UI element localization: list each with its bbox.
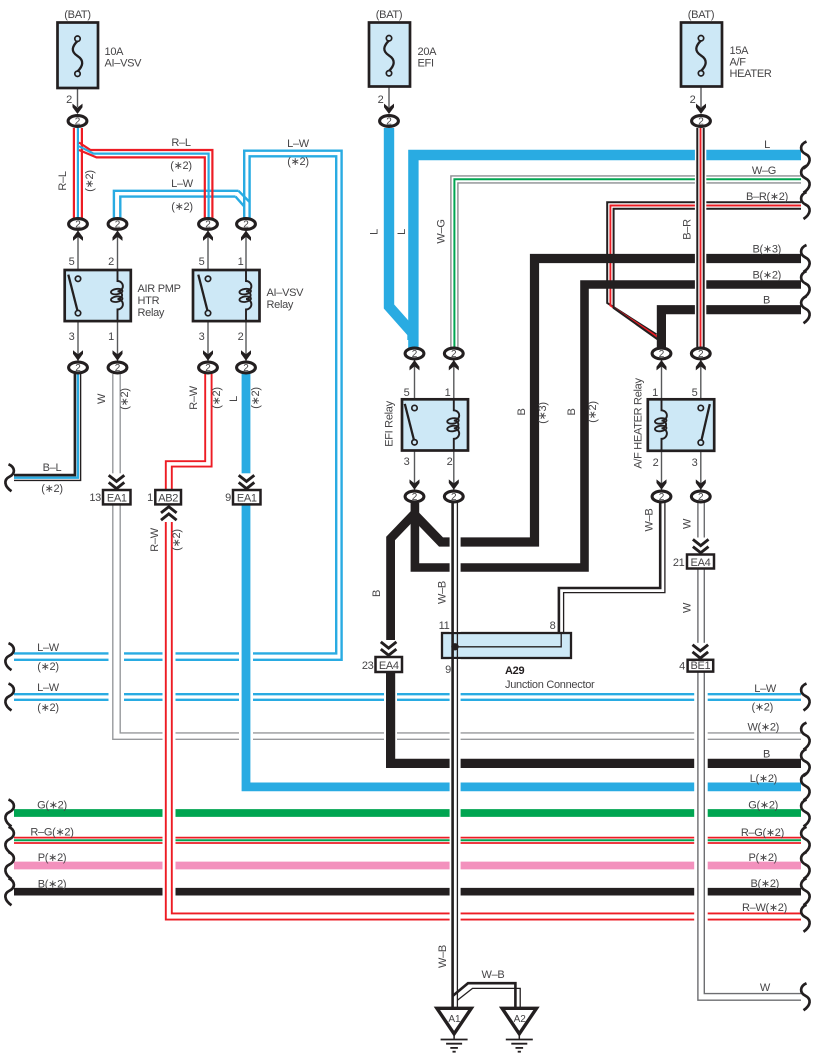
svg-text:W: W	[682, 602, 694, 613]
break right wire B(*2)	[801, 271, 809, 298]
arrow down into oval AIR PMP pin1	[113, 350, 123, 360]
svg-text:1: 1	[445, 387, 451, 399]
break left wire B-L	[5, 464, 13, 491]
arrow down into oval A/F relay pin3	[696, 479, 706, 489]
wire L-W (*2) second full-width horizontal	[14, 694, 801, 700]
wire L thick horizontal from EFI fuse area to right edge	[413, 155, 801, 348]
break right wire B-R(*2)	[801, 192, 809, 219]
arrow up into oval AI-VSV pin1	[241, 231, 251, 241]
arrow below fuse A/F HEATER	[696, 104, 706, 114]
wire R-W upper jog from AI-VSV relay pin3 to AB2	[166, 374, 212, 492]
svg-text:L–W: L–W	[287, 138, 310, 150]
svg-text:B: B	[516, 408, 528, 415]
svg-text:L: L	[228, 396, 240, 402]
svg-text:A29: A29	[505, 665, 524, 677]
svg-text:EA1: EA1	[237, 493, 257, 505]
svg-text:EA4: EA4	[379, 660, 399, 672]
wire B(*2) upper from right edge down-left into EFI relay pin3 stub	[415, 285, 801, 568]
svg-text:W–G: W–G	[752, 165, 776, 177]
svg-text:B(∗2): B(∗2)	[751, 878, 780, 890]
svg-text:EA1: EA1	[107, 493, 127, 505]
svg-text:20A: 20A	[418, 46, 438, 58]
svg-text:1: 1	[108, 331, 114, 343]
svg-text:2: 2	[108, 256, 114, 268]
node oval above AIR PMP pin5	[69, 219, 88, 231]
node oval below EFI pin2	[444, 491, 463, 503]
svg-text:8: 8	[550, 620, 556, 632]
svg-text:P(∗2): P(∗2)	[38, 852, 67, 864]
svg-text:G(∗2): G(∗2)	[748, 800, 778, 812]
node oval below AI-VSV pin3	[199, 362, 218, 374]
svg-text:HEATER: HEATER	[730, 68, 772, 80]
wire R-L branch right to AI-VSV relay pin5	[79, 143, 212, 219]
svg-text:15A: 15A	[730, 45, 750, 57]
svg-text:AB2: AB2	[158, 493, 178, 505]
svg-text:(BAT): (BAT)	[688, 9, 714, 21]
connector 4 BE1	[688, 660, 714, 672]
node oval above AI-VSV pin1	[237, 219, 256, 231]
svg-text:2: 2	[378, 94, 384, 106]
arrow up into oval A/F relay pin5	[696, 360, 706, 370]
wire W(*2) from AIR PMP relay pin1 down then right	[109, 374, 802, 739]
svg-text:3: 3	[199, 331, 205, 343]
arrow down into oval EFI pin2	[449, 479, 459, 489]
svg-text:3: 3	[69, 331, 75, 343]
break left wire G(*2)	[5, 800, 13, 827]
svg-text:(∗2): (∗2)	[170, 160, 191, 172]
svg-text:(∗2): (∗2)	[287, 156, 308, 168]
svg-text:W–G: W–G	[436, 219, 448, 243]
svg-text:B–L: B–L	[43, 462, 62, 474]
svg-text:10A: 10A	[105, 46, 125, 58]
break right wire B(*2) lower	[801, 878, 809, 905]
svg-text:(BAT): (BAT)	[376, 9, 402, 21]
node oval below A/F relay pin2	[652, 491, 671, 503]
break right wire B lower	[801, 749, 809, 776]
node oval above EFI pin1	[444, 348, 463, 360]
wire L-W (*2) upper-left net: AI-VSV relay pin1 up, right, down, to left edge	[14, 151, 342, 660]
svg-text:L(∗2): L(∗2)	[750, 773, 777, 785]
break right wire W(*2)	[801, 723, 809, 750]
svg-text:(∗2): (∗2)	[84, 170, 96, 191]
wire G(*2) full-width green	[14, 809, 801, 817]
svg-text:R–L: R–L	[171, 137, 190, 149]
svg-text:B(∗2): B(∗2)	[753, 270, 782, 282]
svg-text:4: 4	[679, 661, 685, 673]
break right wire W-G	[801, 166, 809, 193]
arrow up into oval EFI pin5	[410, 360, 420, 370]
svg-text:Junction Connector: Junction Connector	[505, 679, 595, 691]
arrow up into oval EFI pin1	[449, 360, 459, 370]
svg-text:EFI: EFI	[418, 58, 434, 70]
svg-text:BE1: BE1	[690, 660, 710, 672]
break right wire B(*3)	[801, 245, 809, 272]
svg-text:2: 2	[690, 94, 696, 106]
svg-text:L–W: L–W	[171, 178, 194, 190]
svg-text:L–W: L–W	[37, 682, 60, 694]
wire R-G(*2) full-width	[14, 838, 801, 843]
svg-text:(∗2): (∗2)	[752, 702, 773, 714]
svg-text:B: B	[763, 749, 770, 761]
svg-text:1: 1	[147, 492, 153, 504]
svg-text:(∗2): (∗2)	[171, 201, 192, 213]
svg-text:W: W	[96, 393, 108, 404]
break right wire R-G(*2)	[801, 827, 809, 854]
svg-text:B–R: B–R	[682, 219, 694, 240]
wire B(*2) full-width black bottom	[14, 888, 801, 896]
svg-text:5: 5	[199, 256, 205, 268]
node oval above A/F relay pin5	[691, 348, 710, 360]
svg-text:W: W	[760, 982, 771, 994]
svg-text:R–W: R–W	[188, 385, 200, 409]
break right wire P(*2)	[801, 852, 809, 879]
svg-text:W(∗2): W(∗2)	[747, 722, 779, 734]
svg-text:EFI Relay: EFI Relay	[384, 400, 396, 446]
break left wire L-W first	[5, 643, 13, 670]
arrow down into oval AI-VSV pin3	[203, 350, 213, 360]
wire P(*2) full-width pink	[14, 862, 801, 870]
relay A/F HEATER	[648, 360, 714, 490]
arrow up into oval A/F relay pin1	[657, 360, 667, 370]
svg-text:(∗3): (∗3)	[537, 402, 549, 423]
svg-text:A/F HEATER Relay: A/F HEATER Relay	[633, 378, 645, 469]
svg-text:R–G(∗2): R–G(∗2)	[741, 827, 784, 839]
arrow up into oval AI-VSV pin5	[203, 231, 213, 241]
wire W-G to EFI relay pin1	[451, 176, 801, 348]
svg-text:5: 5	[692, 387, 698, 399]
svg-text:B: B	[371, 590, 383, 597]
chevron into 9 EA1	[237, 473, 256, 490]
connector 13 EA1	[103, 490, 131, 504]
wire L(*2) from 9 EA1 down then right to edge	[239, 374, 801, 787]
svg-text:(∗2): (∗2)	[41, 483, 62, 495]
arrow up into oval AIR PMP pin2	[113, 231, 123, 241]
chevron up below 1 AB2	[159, 506, 178, 523]
arrow down into oval AIR PMP pin3	[73, 350, 83, 360]
svg-text:(∗2): (∗2)	[37, 661, 58, 673]
node oval above A/F relay pin1	[652, 348, 671, 360]
node oval below AIR PMP pin3	[69, 362, 88, 374]
svg-text:3: 3	[692, 457, 698, 469]
svg-text:23: 23	[362, 660, 374, 672]
chevron into 4 BE1	[691, 643, 710, 660]
svg-text:2: 2	[447, 456, 453, 468]
svg-text:Relay: Relay	[138, 307, 165, 319]
svg-text:W–B: W–B	[437, 945, 449, 968]
svg-text:B: B	[566, 408, 578, 415]
svg-text:R–W: R–W	[149, 527, 161, 551]
wire W-B from A/F relay pin2 left and down to A29 pin8	[559, 503, 665, 634]
connector 1 AB2	[155, 490, 181, 504]
arrow down into oval EFI pin3	[410, 479, 420, 489]
node oval above AIR PMP pin2	[108, 219, 127, 231]
chevron into 13 EA1	[107, 473, 126, 490]
svg-text:B(∗3): B(∗3)	[753, 244, 782, 256]
svg-text:(∗2): (∗2)	[171, 529, 183, 550]
relay AI-VSV	[193, 231, 260, 361]
svg-text:21: 21	[673, 557, 685, 569]
svg-text:B–R(∗2): B–R(∗2)	[746, 191, 788, 203]
junction connector A29 box	[442, 633, 571, 658]
fuse 20A EFI	[369, 23, 410, 108]
svg-text:W–B: W–B	[482, 969, 505, 981]
connector 21 EA4	[687, 555, 714, 569]
node oval above EFI pin5	[405, 348, 424, 360]
node oval below AI-VSV pin2	[237, 362, 256, 374]
node oval below EFI pin3	[405, 491, 424, 503]
svg-text:AI–VSV: AI–VSV	[105, 58, 143, 70]
wire B-R(*2) from right edge to A/F heater relay pin1	[607, 202, 801, 341]
svg-text:9: 9	[225, 492, 231, 504]
svg-text:(∗2): (∗2)	[37, 702, 58, 714]
wire B(*3) from right edge down to Y junction	[413, 259, 801, 543]
arrow down into oval AI-VSV pin2	[241, 350, 251, 360]
svg-text:9: 9	[445, 664, 451, 676]
ground A2	[502, 1008, 536, 1051]
break right wire W bottom	[801, 983, 809, 1010]
svg-text:(∗2): (∗2)	[250, 387, 262, 408]
arrow below fuse AI-VSV	[73, 104, 83, 114]
break right wire L(*2)	[801, 773, 809, 800]
svg-text:5: 5	[69, 256, 75, 268]
svg-text:2: 2	[238, 331, 244, 343]
svg-text:2: 2	[653, 457, 659, 469]
svg-text:11: 11	[439, 620, 450, 632]
node oval fuse AI-VSV pin2	[68, 116, 87, 128]
svg-text:1: 1	[652, 387, 658, 399]
wire R-L from AI-VSV fuse down to AIR PMP relay pin5	[74, 128, 82, 218]
arrow up into oval AIR PMP pin5	[73, 231, 83, 241]
wire B-L from AIR PMP relay pin3 down-left to edge	[14, 374, 81, 480]
svg-text:W: W	[682, 518, 694, 529]
node oval below A/F relay pin3	[691, 491, 710, 503]
wire W from A/F relay pin3 down through EA4/BE1 then right to edge	[694, 503, 801, 1000]
break right wire R-W(*2)	[801, 905, 809, 932]
arrow down into oval A/F relay pin2	[657, 479, 667, 489]
break right wire B	[801, 296, 809, 323]
wire B short from right edge into A/F relay pin1	[661, 310, 801, 348]
svg-text:1: 1	[238, 256, 244, 268]
arrow below fuse EFI	[384, 104, 394, 114]
connector 9 EA1	[233, 490, 261, 504]
svg-text:B: B	[763, 295, 770, 307]
svg-text:L: L	[369, 229, 381, 235]
node oval fuse A/F HEATER pin2	[692, 116, 711, 128]
svg-text:2: 2	[66, 94, 72, 106]
svg-text:L–W: L–W	[37, 642, 60, 654]
node oval below AIR PMP pin1	[108, 362, 127, 374]
svg-text:R–W(∗2): R–W(∗2)	[742, 902, 787, 914]
svg-text:W–B: W–B	[437, 581, 449, 604]
svg-text:R–G(∗2): R–G(∗2)	[30, 827, 73, 839]
svg-text:(∗2): (∗2)	[587, 401, 599, 422]
chevron into 21 EA4	[691, 538, 710, 555]
chevron into 23 EA4	[379, 640, 398, 657]
fuse 10A AI-VSV	[58, 23, 99, 108]
svg-text:5: 5	[404, 387, 410, 399]
wire L from EFI fuse down with diagonal merge	[389, 128, 413, 340]
wire R-W(*2) from AB2 down then right to edge	[163, 505, 802, 920]
wire B-R from A/F heater fuse down to A/F relay pin5	[695, 128, 706, 348]
svg-text:HTR: HTR	[138, 295, 160, 307]
svg-text:AI–VSV: AI–VSV	[267, 287, 305, 299]
svg-text:W–B: W–B	[644, 509, 656, 532]
node oval above AI-VSV pin5	[199, 219, 218, 231]
break right wire G(*2)	[801, 800, 809, 827]
wire W-B main vertical from EFI relay pin2 to ground A1	[450, 503, 461, 1008]
svg-text:B(∗2): B(∗2)	[38, 879, 67, 891]
fuse 15A A/F HEATER	[681, 23, 722, 108]
svg-text:L: L	[764, 139, 770, 151]
svg-text:3: 3	[404, 456, 410, 468]
svg-text:L–W: L–W	[754, 683, 777, 695]
relay AIR PMP HTR	[65, 231, 131, 361]
svg-text:G(∗2): G(∗2)	[37, 800, 67, 812]
wire B from Y junction diagonal down to 23 EA4	[391, 512, 416, 642]
break left wire L-W second	[5, 684, 13, 711]
svg-text:L: L	[396, 229, 408, 235]
svg-text:(∗2): (∗2)	[211, 387, 223, 408]
A29 junction dot	[451, 643, 458, 650]
svg-text:EA4: EA4	[691, 557, 711, 569]
break left wire R-G(*2)	[5, 827, 13, 854]
connector 23 EA4	[376, 657, 403, 672]
wire L-W lower branch to AIR PMP relay pin2	[114, 191, 250, 218]
break left wire B(*2)	[5, 878, 13, 905]
wire W-B branch to ground A2	[453, 983, 521, 1008]
break right wire L-W	[801, 684, 809, 711]
svg-text:A2: A2	[514, 1014, 527, 1025]
break right wire L	[801, 142, 809, 169]
ground A1	[437, 1008, 471, 1051]
svg-text:AIR PMP: AIR PMP	[138, 283, 181, 295]
relay EFI	[402, 360, 468, 490]
svg-text:P(∗2): P(∗2)	[749, 852, 778, 864]
node oval fuse EFI pin2	[380, 116, 399, 128]
svg-text:(BAT): (BAT)	[64, 9, 90, 21]
svg-text:13: 13	[89, 492, 101, 504]
svg-text:A/F: A/F	[730, 57, 747, 69]
svg-text:Relay: Relay	[267, 299, 294, 311]
break left wire P(*2)	[5, 852, 13, 879]
svg-text:(∗2): (∗2)	[119, 388, 131, 409]
wire B from 23 EA4 down then right to edge	[384, 672, 801, 764]
A29 internal bus line	[455, 633, 561, 647]
svg-text:R–L: R–L	[57, 171, 69, 190]
svg-text:A1: A1	[448, 1014, 461, 1025]
